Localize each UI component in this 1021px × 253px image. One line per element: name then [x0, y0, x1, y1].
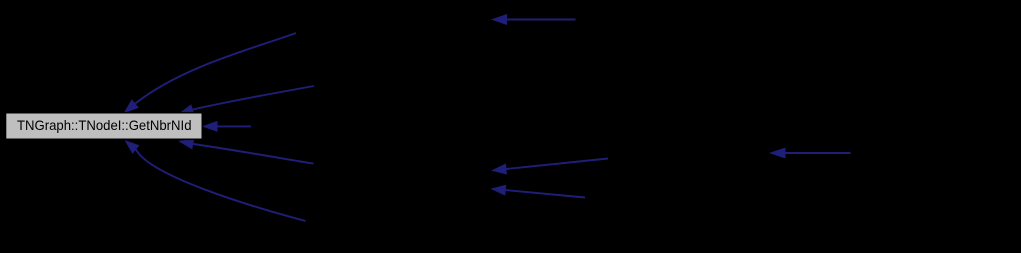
edge line into middle node (mid upper)	[506, 159, 608, 170]
edge arrowhead into right-column node	[769, 148, 786, 159]
edge line from caller node 2 to GetNbrNId	[193, 86, 314, 110]
edge line into right-column node	[786, 152, 851, 154]
node box TNGraph::TNodeI::GetNbrNId (current function, grey fill)	[6, 113, 203, 140]
edge line into middle node (top)	[507, 19, 576, 21]
edge line from caller node 4 to GetNbrNId	[193, 144, 313, 164]
edge arrowhead into GetNbrNId (lower-right line)	[178, 139, 194, 150]
edge arrowhead into middle node (top)	[491, 14, 507, 25]
edge arrowhead into GetNbrNId (horizontal)	[202, 121, 218, 132]
edge arrowhead into middle node (mid upper)	[491, 164, 507, 175]
edge curve from caller node 5 to GetNbrNId	[136, 150, 306, 221]
edge arrowhead into middle node (mid lower)	[490, 185, 506, 196]
edge line horizontal into GetNbrNId right edge	[218, 125, 252, 127]
edge curve from caller node 1 to GetNbrNId	[135, 33, 296, 103]
edge arrowhead into GetNbrNId (upper-right line)	[178, 104, 194, 115]
edge line into middle node (mid lower)	[506, 190, 585, 197]
edge arrowhead into GetNbrNId (top-left curve)	[124, 99, 139, 113]
edge arrowhead into GetNbrNId (bottom-left curve)	[125, 140, 140, 154]
svg-text:TNGraph::TNodeI::GetNbrNId: TNGraph::TNodeI::GetNbrNId	[17, 117, 192, 133]
